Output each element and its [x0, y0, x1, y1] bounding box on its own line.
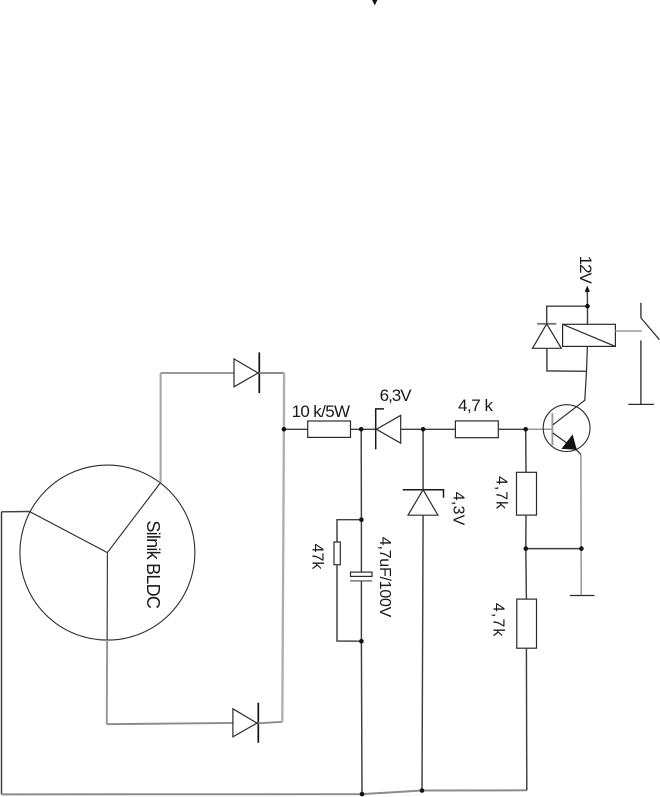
svg-text:10 k/5W: 10 k/5W	[292, 402, 351, 421]
wire: 12V terminal down to coil node	[586, 291, 588, 306]
flyback diode D3 triangle (points up)	[533, 324, 562, 349]
wire: divider node to emitter line	[526, 548, 582, 550]
wire: left rail	[1, 512, 3, 795]
svg-text:6,3V: 6,3V	[380, 386, 413, 405]
switch S1 lower terminal	[640, 340, 642, 404]
node: base junction	[523, 427, 528, 432]
resistor R5 4,7k body	[517, 599, 537, 648]
transistor Q1 base bar	[551, 413, 553, 445]
page-top terminal arrow fragment	[372, 0, 377, 5]
transistor Q1 emitter line	[553, 433, 581, 455]
wire: coil node left to flyback diode	[547, 306, 588, 324]
node: RC bottom junction	[359, 639, 364, 644]
wire: lower node down to ground rail	[360, 641, 363, 794]
zener Z1 6,3V cathode bar with top bend	[376, 409, 384, 450]
wire: bottom ground rail	[2, 790, 528, 794]
svg-text:4,7 k: 4,7 k	[458, 396, 494, 415]
wire: cap branch top lead	[360, 520, 362, 573]
wire: R3 to base node	[498, 428, 525, 430]
12V supply terminal arrow	[585, 286, 590, 293]
wire: D2 cathode up to DC bus	[258, 722, 282, 724]
wire: D1 cathode to DC bus	[259, 372, 284, 374]
switch S1 upper terminal	[640, 303, 642, 318]
wire: DC bus vertical lower	[282, 429, 284, 722]
transistor Q1 emitter arrow	[561, 434, 576, 449]
wire: motor winding down (Y)	[106, 553, 108, 640]
wire: parallel node to 47k branch top	[337, 520, 361, 542]
diode D2 cathode bar	[257, 703, 259, 743]
wire: Z1 anode to node B	[401, 428, 456, 430]
node: B (after Z1)	[421, 427, 426, 432]
node: coil top junction	[585, 304, 590, 309]
wire: bottom phase lead below circle	[106, 640, 108, 724]
resistor R4 4,7k body	[517, 472, 537, 515]
svg-text:4,7uF/100V: 4,7uF/100V	[376, 537, 393, 618]
wire: relay contact feed	[615, 330, 641, 332]
node: ground rail junction 1	[360, 792, 365, 797]
svg-text:4,3V: 4,3V	[449, 492, 466, 526]
wire: D3 anode down and right to collector line	[547, 348, 587, 371]
resistor R2 47k body	[334, 542, 340, 565]
node: emitter junction	[579, 546, 584, 551]
node: A (after R1)	[359, 427, 364, 432]
relay K1 coil diagonal	[563, 324, 616, 346]
resistor R1 10k/5W body	[308, 421, 351, 437]
capacitor C1 bottom plate	[350, 580, 372, 582]
diode D1 (top rectifier) triangle	[234, 359, 258, 387]
wire: base node down to R4	[525, 429, 527, 472]
diode D1 cathode bar	[258, 352, 260, 393]
wire: Z2 anode down to ground rail	[422, 515, 423, 790]
wire: node B down to zener Z2	[422, 429, 424, 489]
node: RC top junction	[359, 517, 364, 522]
wire: emitter vertical to ground	[580, 455, 582, 596]
svg-text:12V: 12V	[576, 256, 595, 285]
wire: top phase vertical up	[160, 373, 162, 483]
motor M1 circle	[20, 465, 195, 640]
svg-text:47k: 47k	[308, 544, 325, 571]
wire: motor winding top-right (Y)	[107, 483, 160, 553]
switch S1 blade	[641, 318, 660, 340]
wire: top horizontal to diode D1	[161, 372, 234, 374]
node: DC bus junction	[282, 427, 287, 432]
capacitor C1 top plate	[351, 572, 373, 576]
transistor Q1 collector line	[553, 346, 588, 424]
wire: node A down to C/R parallel node	[360, 429, 362, 519]
transistor Q1 circle	[543, 405, 590, 452]
ground symbol (emitter)	[570, 595, 595, 597]
svg-text:4,7k: 4,7k	[493, 476, 510, 510]
ground symbol (switch)	[628, 403, 654, 405]
wire: motor left phase horizontal	[2, 511, 30, 513]
relay K1 coil box	[563, 324, 616, 346]
svg-text:Silnik BLDC: Silnik BLDC	[143, 520, 163, 609]
wire: cap bottom lead to lower node	[360, 581, 362, 641]
zener Z2 triangle (points up)	[408, 490, 438, 516]
wire: coil node to coil top	[587, 306, 589, 325]
wire: base node to transistor base	[526, 428, 553, 430]
diode D2 (bottom rectifier) triangle	[233, 709, 257, 737]
zener Z1 triangle (points left)	[376, 415, 400, 443]
wire: R4 to divider node	[525, 515, 527, 549]
node: ground rail junction 2	[420, 788, 425, 793]
node: divider junction	[524, 546, 529, 551]
flyback diode D3 cathode bar	[537, 323, 556, 325]
svg-text:4,7k: 4,7k	[489, 603, 506, 638]
wire: R1 to node A	[351, 428, 376, 430]
wire: 47k bottom to lower node	[337, 565, 361, 642]
wire: DC bus vertical upper	[283, 373, 286, 429]
wire: DC bus node to resistor R1	[284, 428, 308, 430]
resistor R3 4,7k horizontal body	[455, 421, 498, 438]
wire: R5 down to ground rail	[525, 648, 527, 790]
zener Z2 4,3V cathode bar with right bend	[403, 490, 444, 498]
wire: bottom horizontal to diode D2	[107, 723, 233, 724]
wire: divider node down to R5	[525, 549, 528, 600]
wire: motor winding left (Y)	[30, 512, 108, 553]
